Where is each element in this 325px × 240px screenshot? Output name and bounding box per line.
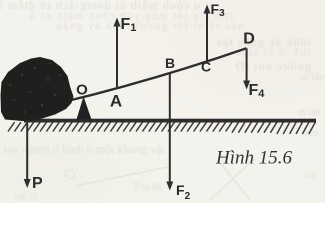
- rock: [1, 57, 74, 122]
- bleed-through faint figure lines (reverse page): [66, 158, 256, 200]
- svg-text:Hình 15.6: Hình 15.6: [215, 148, 293, 169]
- bleed-through bottom line: [4, 142, 165, 157]
- lever beam: [57, 48, 247, 103]
- svg-text:F2: F2: [176, 182, 191, 202]
- bleed-through text line 2: [28, 10, 233, 22]
- svg-text:F1: F1: [121, 16, 137, 34]
- bleed-through text right edge: [300, 71, 325, 83]
- svg-text:A: A: [110, 92, 122, 111]
- bleed-through bottom-right marks: [133, 182, 162, 193]
- svg-text:O: O: [76, 82, 88, 99]
- bleed-through text line 4: [215, 35, 311, 50]
- weight arrow P: [24, 120, 31, 188]
- ground hatching: [8, 122, 315, 134]
- bleed-through text line 5: [237, 47, 310, 59]
- svg-text:P: P: [32, 175, 43, 192]
- ground line: [24, 119, 316, 123]
- svg-text:D: D: [243, 31, 255, 48]
- force arrow F4: [243, 48, 250, 89]
- bleed-through text line 3: [55, 20, 244, 32]
- force arrow F1: [114, 18, 121, 89]
- svg-text:B: B: [165, 55, 175, 71]
- bleed-through corner mark: [14, 192, 37, 203]
- bleed-through text right edge 2: [298, 107, 321, 118]
- force arrow F3: [204, 5, 211, 62]
- fulcrum triangle: [77, 96, 92, 119]
- svg-text:C: C: [201, 59, 211, 75]
- bleed-through text line 6: [235, 59, 311, 74]
- bleed-through text line 1: [0, 0, 200, 13]
- bleed-through bottom-right corner: [305, 170, 317, 181]
- svg-text:F3: F3: [211, 1, 226, 19]
- force arrow F2: [166, 73, 173, 190]
- bleed-through text right edge 3: [303, 128, 319, 139]
- rock speckles: [9, 63, 64, 113]
- svg-text:F4: F4: [249, 82, 266, 100]
